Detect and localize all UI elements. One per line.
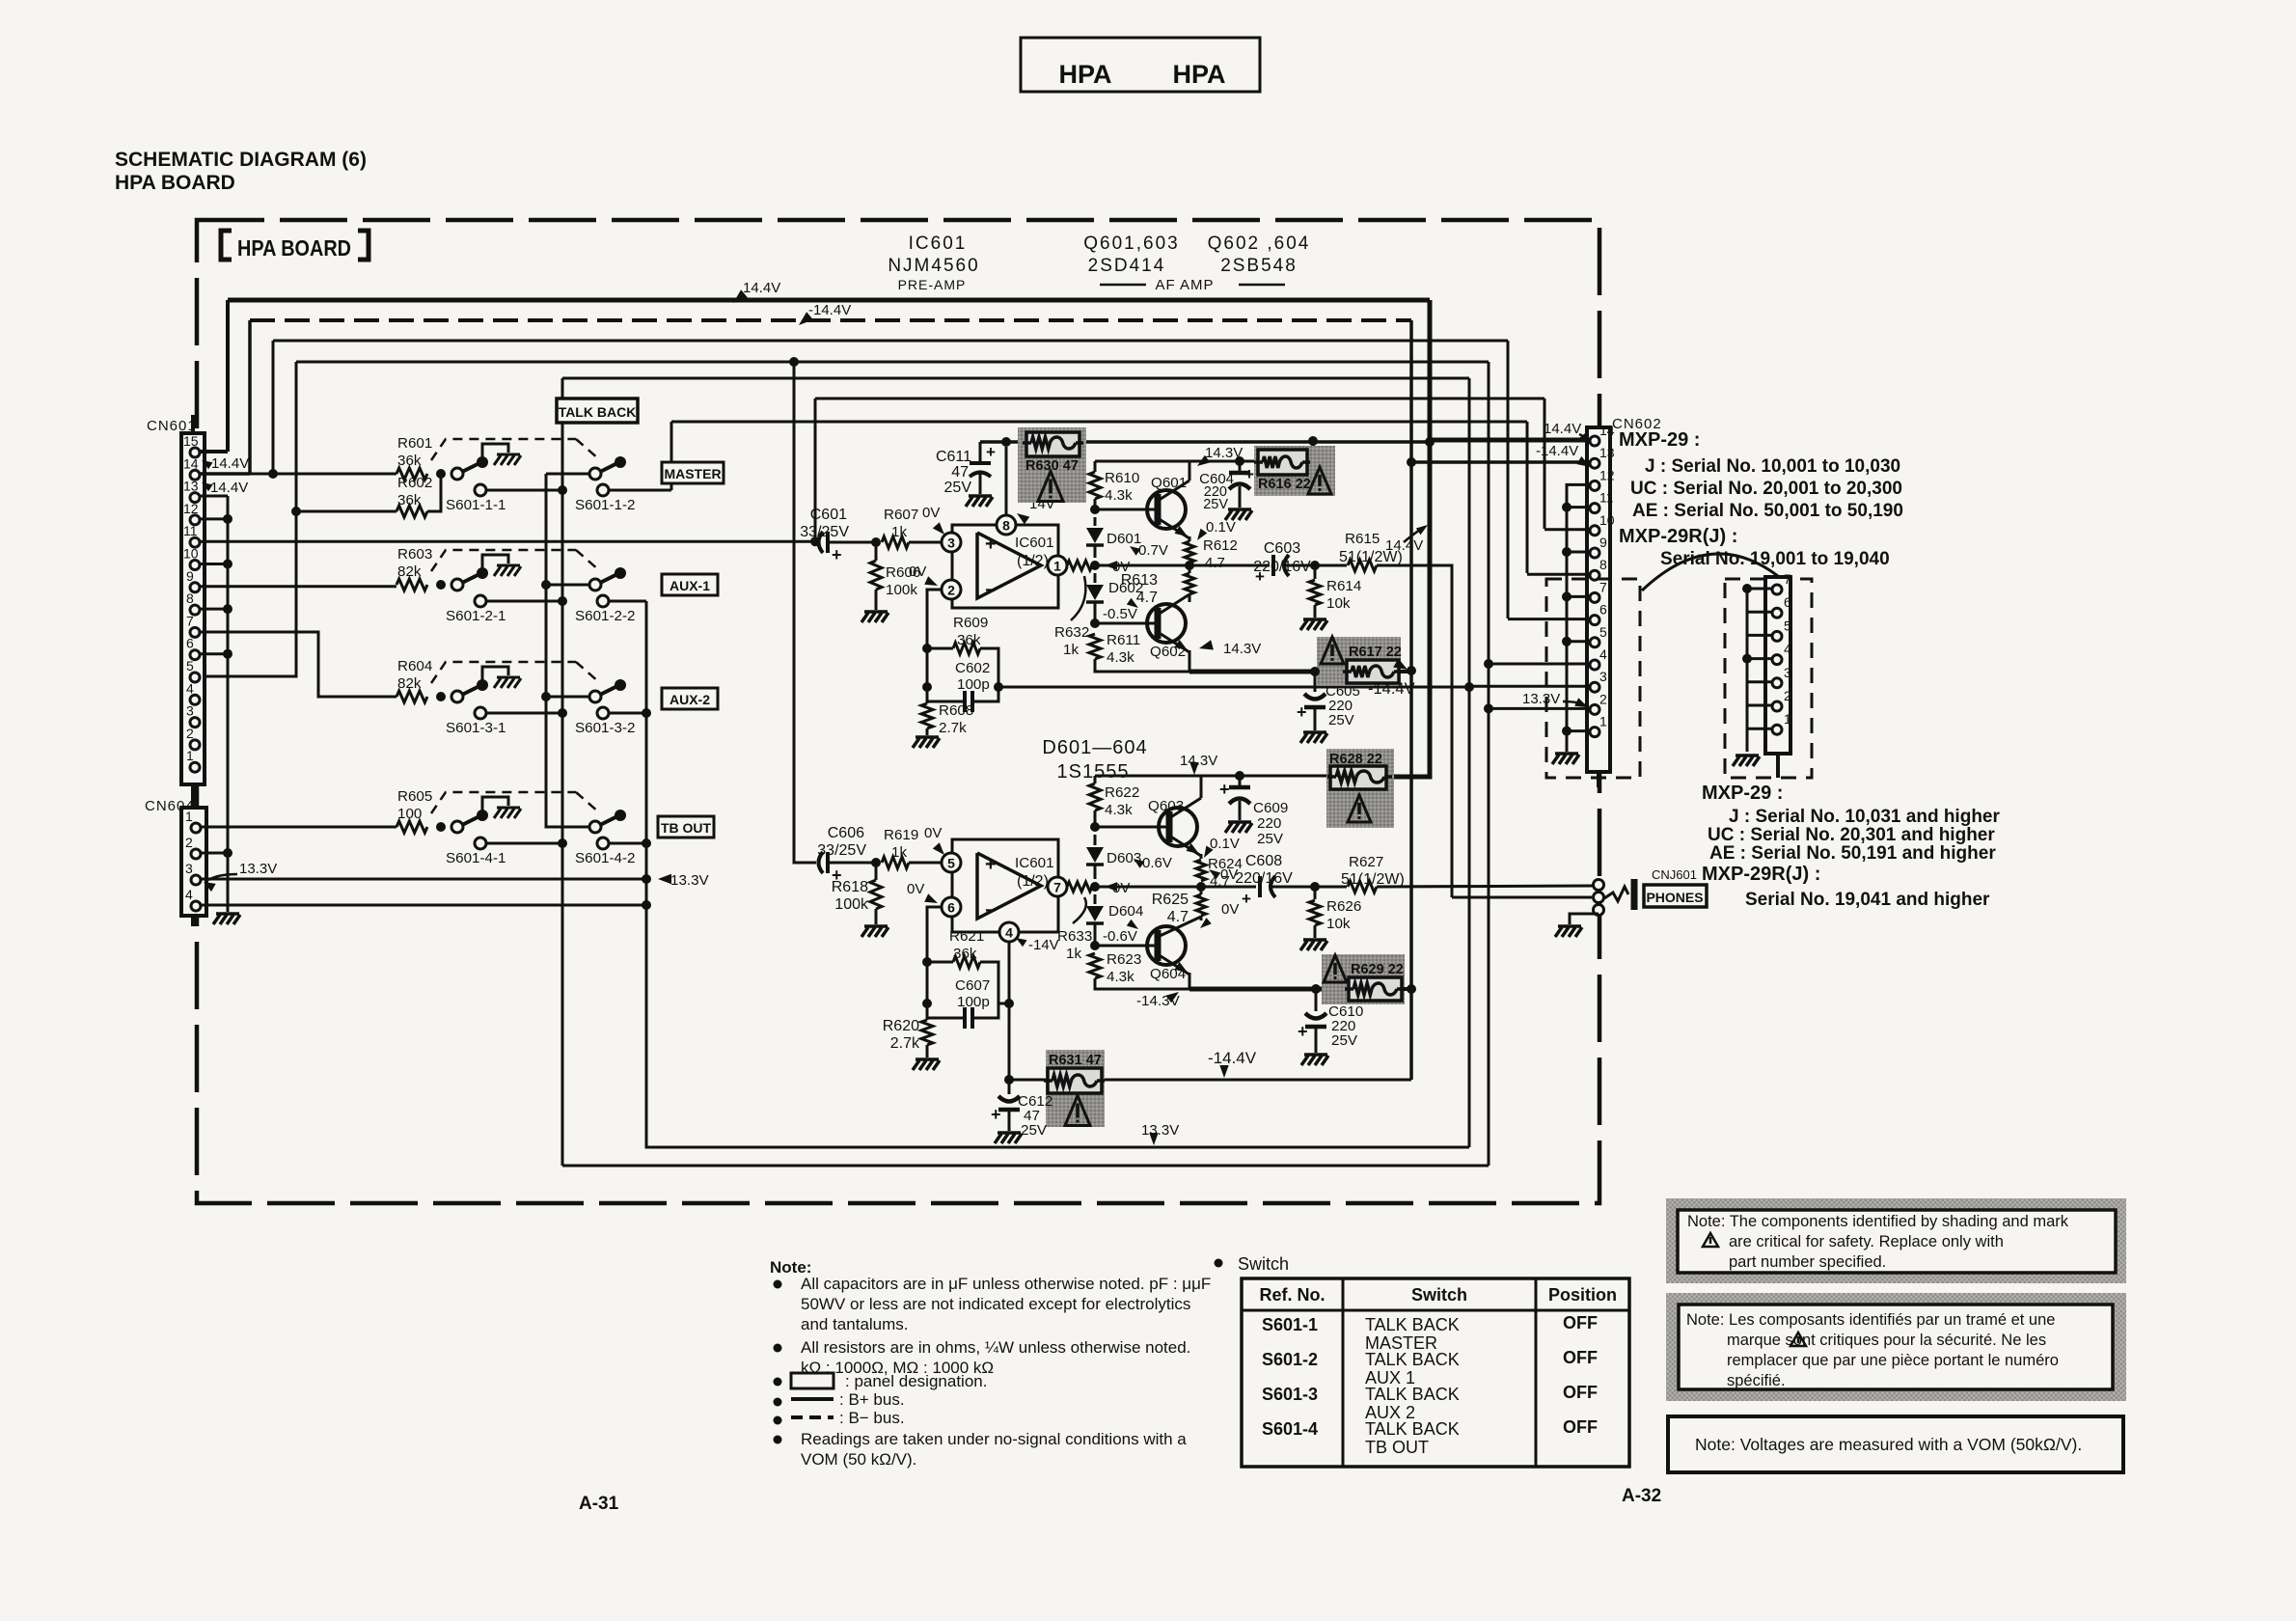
wire R607 to pin3: [909, 541, 942, 544]
detached connector tail: [1776, 754, 1780, 778]
wire Q604 base: [1095, 945, 1158, 948]
wire CN601 pin14 to -14.4V bus: [200, 472, 250, 476]
resistor R623: [1089, 953, 1101, 978]
junction pin14 row / bus3: [268, 469, 278, 479]
ground jack: [1558, 924, 1581, 928]
svg-text:2: 2: [186, 726, 194, 741]
CN602 pin 14: [1590, 436, 1599, 446]
wire Q602 base: [1095, 622, 1158, 625]
svg-text:R623: R623: [1107, 951, 1141, 968]
capacitor C609: [1239, 776, 1242, 785]
svg-text:4: 4: [186, 680, 194, 696]
svg-text:AE : Serial No. 50,001 to 50,1: AE : Serial No. 50,001 to 50,190: [1632, 501, 1903, 521]
switch S601-3-2: [589, 691, 601, 702]
shaded fusible resistor R617: [1317, 637, 1401, 685]
ground R626: [1303, 938, 1326, 942]
wire -14.4V bus right leg: [1409, 320, 1413, 461]
panel label TALK BACK: [557, 398, 638, 423]
note bullet 1: [774, 1280, 782, 1289]
svg-text:14.3V: 14.3V: [1223, 641, 1261, 657]
wire R629 to -14.4V bus: [1402, 987, 1411, 991]
resistor R602: [296, 510, 396, 513]
wire -14.4V bus vertical lower: [1409, 461, 1413, 1080]
note bullet 5: [774, 1416, 782, 1425]
svg-text:R605: R605: [397, 788, 432, 805]
svg-text:4.3k: 4.3k: [1105, 487, 1133, 504]
diode D602: [1094, 573, 1097, 583]
shaded fusible resistor R631: [1046, 1050, 1105, 1127]
wire CN604 pin2 to ground bus: [201, 852, 228, 855]
svg-text:0.1V: 0.1V: [1210, 836, 1240, 852]
svg-text:4: 4: [1599, 646, 1607, 662]
wire bus 3 left leg: [272, 341, 275, 474]
svg-text:13.3V: 13.3V: [239, 861, 277, 877]
svg-text:C606: C606: [828, 825, 864, 841]
svg-text:TALK BACK: TALK BACK: [1365, 1315, 1460, 1334]
svg-text:OFF: OFF: [1563, 1348, 1598, 1367]
wire CN602 pin 7 ground: [1567, 595, 1590, 598]
ground R608: [916, 735, 939, 739]
svg-text:R633: R633: [1057, 928, 1092, 945]
arrow -14.4V top: [799, 312, 813, 325]
svg-text:R607: R607: [884, 507, 918, 523]
wire CN601 pin 8 to ground bus: [200, 608, 228, 611]
wire CN602 pin 11 ground: [1567, 506, 1590, 508]
junction CN602 gbus 9: [1562, 547, 1572, 557]
ground C610: [1304, 1053, 1327, 1057]
junction Q601 base node: [1090, 505, 1100, 514]
IC601 pin 7 (output): [1048, 877, 1067, 896]
svg-text:9: 9: [186, 568, 194, 584]
svg-text:S601-3-1: S601-3-1: [446, 720, 506, 736]
svg-text:220: 220: [1257, 815, 1281, 832]
wire CN602 pin3 to fb line: [1469, 685, 1590, 688]
svg-text:Q601,603: Q601,603: [1083, 234, 1179, 254]
svg-text:7: 7: [1599, 579, 1607, 594]
wire R619 to pin5: [909, 862, 942, 865]
svg-text:4.3k: 4.3k: [1107, 969, 1134, 985]
switch table col line 2: [1535, 1278, 1538, 1467]
panel label TB OUT: [658, 816, 714, 838]
junction fb R621: [922, 957, 932, 967]
junction fb R609: [922, 644, 932, 653]
label 0V ch2 out: [1105, 882, 1117, 891]
svg-text:+: +: [832, 545, 842, 564]
svg-text:part number specified.: part number specified.: [1729, 1253, 1886, 1271]
panel label PHONES: [1644, 885, 1707, 907]
svg-text:NJM4560: NJM4560: [888, 256, 979, 276]
pointer R633: [1073, 897, 1086, 923]
svg-text:and tantalums.: and tantalums.: [801, 1315, 909, 1333]
svg-text:14: 14: [183, 455, 199, 471]
svg-text:AF AMP: AF AMP: [1155, 277, 1214, 293]
CN602 pin 2: [1590, 704, 1599, 714]
wire CN602 pin6 to bus3: [1508, 618, 1590, 620]
svg-text:14.3V: 14.3V: [1180, 753, 1217, 769]
wire Q603 base: [1095, 826, 1169, 829]
svg-text:Q601: Q601: [1151, 475, 1187, 491]
svg-text:R612: R612: [1203, 537, 1238, 554]
svg-text:R614: R614: [1326, 578, 1361, 594]
resistor R619: [882, 857, 909, 868]
svg-text:1: 1: [1784, 711, 1791, 727]
svg-text:R611: R611: [1107, 632, 1140, 648]
detached connector body: [1765, 577, 1790, 754]
svg-text:C603: C603: [1264, 540, 1300, 557]
svg-text:OFF: OFF: [1563, 1383, 1598, 1402]
connector CN604 tail bottom: [191, 916, 195, 926]
wire S601-1-2 contact to bus7: [609, 489, 671, 492]
wire ch2 out row: [1095, 886, 1201, 889]
svg-text:MXP-29R(J) :: MXP-29R(J) :: [1619, 526, 1737, 547]
wire 14.4V trunk to R628: [1392, 442, 1430, 777]
shaded fusible resistor R629: [1322, 954, 1405, 1004]
svg-text:S601-3: S601-3: [1262, 1385, 1318, 1404]
svg-text:HPA: HPA: [1058, 60, 1111, 89]
svg-text:25V: 25V: [1257, 831, 1284, 847]
svg-text:TALK BACK: TALK BACK: [559, 404, 637, 420]
note box FR shaded frame: [1666, 1293, 2126, 1401]
svg-text:UC : Serial No. 20,001 to 20,3: UC : Serial No. 20,001 to 20,300: [1630, 479, 1902, 499]
svg-text:1: 1: [1599, 714, 1607, 729]
pointer 13.3V CN602: [1563, 701, 1587, 706]
svg-text:Switch: Switch: [1238, 1254, 1289, 1274]
switch S601-3-1: [436, 692, 446, 701]
ground C609: [1228, 820, 1251, 824]
resistor R604: [396, 691, 427, 702]
svg-text:+: +: [1219, 780, 1230, 799]
svg-text:13: 13: [1599, 445, 1615, 460]
svg-text:Note: The components identifie: Note: The components identified by shadi…: [1687, 1213, 2069, 1230]
svg-text:8: 8: [1002, 518, 1010, 534]
note B- symbol: [791, 1415, 834, 1419]
wire S601-2-2 contact: [609, 600, 646, 603]
switch S601-4-1: [436, 822, 446, 832]
resistor R620: [926, 1018, 929, 1020]
note bullet 4: [774, 1398, 782, 1407]
resistor R633: [1067, 882, 1092, 892]
wire C607 left: [927, 962, 965, 1018]
wire 14.4V bus right leg: [1428, 300, 1433, 441]
wire S601-1-2 pivot: [546, 473, 589, 476]
svg-text:J : Serial No. 10,031 and high: J : Serial No. 10,031 and higher: [1729, 807, 2000, 827]
junction R615 in: [1310, 561, 1320, 570]
connector CN601 body: [181, 433, 205, 784]
svg-text:R604: R604: [397, 658, 432, 674]
capacitor C610: [1315, 989, 1318, 1011]
svg-text:1k: 1k: [1063, 642, 1079, 658]
svg-text:33/25V: 33/25V: [817, 842, 866, 859]
svg-text:4.3k: 4.3k: [1107, 649, 1134, 666]
shaded fusible resistor R628: [1326, 749, 1394, 828]
svg-text:IC601: IC601: [1015, 535, 1054, 551]
CN602 pin 3: [1590, 682, 1599, 692]
svg-text:25V: 25V: [1331, 1032, 1358, 1049]
svg-text:R619: R619: [884, 827, 918, 843]
ground C612: [998, 1131, 1021, 1135]
wire bus 6 left leg: [814, 398, 817, 542]
arrow 14.4V at CN601: [202, 460, 213, 469]
wire CN601 pin15 to 14.4V bus: [200, 450, 228, 453]
CN602 pin 5: [1590, 638, 1599, 647]
junction R602/bus4: [291, 507, 301, 516]
resistor R611: [1089, 634, 1101, 659]
svg-text:Q602: Q602: [1150, 644, 1186, 660]
svg-text:100p: 100p: [957, 676, 990, 693]
wire CN602 pin10 to bus6: [1544, 528, 1590, 531]
det pin 3 wire: [1747, 680, 1772, 683]
capacitor C604: [1239, 461, 1242, 471]
wire S601-4-2 contact: [609, 842, 646, 845]
wire R617 to -14.4V bus: [1399, 670, 1411, 673]
diode D604: [1094, 894, 1097, 904]
svg-text:UC : Serial No. 20,301 and hig: UC : Serial No. 20,301 and higher: [1708, 825, 1995, 845]
svg-text:R626: R626: [1326, 898, 1361, 915]
detached connector gbus: [1746, 589, 1749, 752]
IC601 pin 6: [942, 897, 961, 917]
capacitor C602: [963, 691, 967, 712]
switch bullet: [1215, 1259, 1223, 1268]
wire ch1 -14.4V line: [1189, 670, 1347, 674]
svg-text:0V: 0V: [907, 881, 924, 897]
rule right of AF AMP: [1239, 284, 1285, 287]
wire pin8 riser: [1005, 447, 1008, 515]
IC601 pin 1 (output): [1048, 556, 1067, 575]
svg-text:C611: C611: [936, 449, 971, 465]
resistor R621: [927, 961, 953, 964]
shaded fusible resistor R630: [1018, 427, 1086, 503]
svg-text:C608: C608: [1245, 853, 1282, 869]
svg-text:8: 8: [186, 591, 194, 606]
svg-text:TALK BACK: TALK BACK: [1365, 1350, 1460, 1369]
svg-text:25V: 25V: [1203, 497, 1228, 512]
resistor R608: [926, 701, 929, 703]
svg-text:+: +: [1255, 567, 1265, 586]
svg-text:+: +: [991, 1105, 1001, 1124]
CN602 pin 7: [1590, 592, 1599, 602]
switch S601-2-1: [436, 580, 446, 590]
svg-text:14.4V: 14.4V: [211, 455, 249, 472]
wire bus 6 right leg: [1544, 398, 1546, 529]
resistor R601: [396, 468, 427, 480]
svg-text:1: 1: [1053, 559, 1061, 574]
svg-text:HPA: HPA: [1172, 60, 1225, 89]
svg-text:1S1555: 1S1555: [1057, 761, 1130, 783]
junction fb/bus5 right leg: [1464, 682, 1474, 692]
IC601 pin 8: [997, 515, 1016, 535]
svg-text:−: −: [985, 580, 997, 601]
svg-text:1k: 1k: [1066, 946, 1081, 962]
svg-text:Q604: Q604: [1150, 966, 1186, 982]
wire CN604 pin1 to R605: [201, 826, 396, 829]
svg-text:(1/2): (1/2): [1017, 553, 1049, 569]
junction CN602 gbus 7: [1562, 591, 1572, 601]
svg-text:D604: D604: [1108, 903, 1143, 920]
svg-text:-14.4V: -14.4V: [1208, 1049, 1257, 1067]
svg-text:0.1V: 0.1V: [1206, 519, 1236, 536]
resistor R607: [882, 536, 909, 548]
IC601 pin 5: [942, 853, 961, 872]
note bullet 3: [774, 1378, 782, 1387]
junction ch2 feed on L4: [789, 357, 799, 367]
capacitor C612: [1008, 1080, 1011, 1094]
svg-text:11: 11: [1599, 490, 1614, 506]
svg-text:D601—604: D601—604: [1042, 737, 1147, 758]
svg-text:2.7k: 2.7k: [890, 1035, 920, 1052]
junction ch1 input / bus6 leg: [810, 536, 820, 546]
capacitor C605: [1314, 672, 1317, 692]
svg-text:2: 2: [185, 835, 193, 850]
CN602 pin 9: [1590, 548, 1599, 558]
junction fb line: [994, 682, 1003, 692]
resistor R626: [1314, 887, 1317, 899]
svg-text:R620: R620: [883, 1018, 919, 1034]
svg-text:R627: R627: [1349, 854, 1383, 870]
capacitor C607: [963, 1007, 967, 1029]
wire C606 to R619: [828, 862, 879, 865]
junction pivot g2: [541, 580, 551, 590]
svg-text:0.6V: 0.6V: [1142, 855, 1172, 871]
note box VOM frame: [1668, 1416, 2123, 1472]
junction Q602 base node: [1090, 618, 1100, 628]
switch S601-2-2: [589, 579, 601, 591]
svg-text:33/25V: 33/25V: [800, 524, 849, 540]
svg-text:0V: 0V: [922, 505, 940, 521]
svg-text:AE : Serial No. 50,191 and hig: AE : Serial No. 50,191 and higher: [1709, 843, 1996, 864]
wire pivot stub g2: [546, 584, 589, 587]
capacitor C603: [1189, 564, 1270, 567]
connector CN604 body: [181, 808, 206, 916]
svg-text:Note: Les composants identifié: Note: Les composants identifiés par un t…: [1686, 1311, 2055, 1329]
wire C607 right: [972, 962, 998, 1018]
svg-text:Ref. No.: Ref. No.: [1259, 1285, 1325, 1305]
note bullet 6: [774, 1436, 782, 1444]
wire C601 to R607: [828, 541, 879, 544]
svg-text:D601: D601: [1107, 531, 1141, 547]
junction fb C607: [922, 999, 932, 1008]
svg-text:10k: 10k: [1326, 595, 1351, 612]
svg-text:Switch: Switch: [1411, 1285, 1467, 1305]
wire bus 3 right leg: [1507, 341, 1510, 618]
switch S601-1-2: [589, 468, 601, 480]
detached connector pin 2: [1772, 701, 1782, 711]
wire CN601 pin7 elbow to R604: [200, 632, 396, 697]
svg-text:HPA BOARD: HPA BOARD: [115, 172, 235, 194]
note bullet 2: [774, 1344, 782, 1353]
svg-text:10: 10: [183, 546, 199, 562]
junction fb pin4 col: [1004, 999, 1014, 1008]
CN602 pin 10: [1590, 526, 1599, 536]
resistor R606: [875, 542, 878, 561]
svg-text:3: 3: [1784, 665, 1791, 680]
svg-text:3: 3: [947, 536, 955, 551]
svg-text:: B− bus.: : B− bus.: [839, 1409, 905, 1427]
dashed box CN602 lower: [1546, 579, 1640, 778]
svg-text:220/16V: 220/16V: [1235, 870, 1293, 887]
wire S601-3-2 contact: [609, 712, 646, 715]
wire CN601 pin9 to R603: [200, 585, 396, 588]
junction ground bus CN604 pin2: [223, 848, 232, 858]
ground CN602 bus: [1555, 752, 1578, 756]
svg-text:TB OUT: TB OUT: [1365, 1438, 1429, 1457]
svg-text:CNJ601: CNJ601: [1652, 867, 1697, 882]
wire R628 to ch2 rail: [1327, 775, 1332, 778]
connector CN601 tail top: [191, 415, 195, 433]
capacitor C601: [819, 532, 824, 553]
jack plug symbol: [1604, 887, 1628, 901]
IC601 pin 3: [942, 533, 961, 552]
detached connector pin 4: [1772, 655, 1782, 665]
wire R616 riser: [1307, 441, 1313, 461]
wire CN604 pin3 13.3V line: [201, 878, 646, 881]
wire CN602 pin2 13.3V: [1489, 707, 1590, 710]
svg-text:All capacitors are in μF u: All capacitors are in μF unless otherwis…: [801, 1275, 1211, 1293]
svg-text:: B+ bus.: : B+ bus.: [839, 1390, 905, 1409]
wire fb to CN602 pin3 row: [998, 686, 1469, 689]
CN602 pin 4: [1590, 660, 1599, 670]
junction C605: [1310, 667, 1320, 676]
svg-text:2SD414: 2SD414: [1088, 256, 1166, 276]
svg-text:4: 4: [1005, 925, 1013, 941]
junction R627 in: [1310, 882, 1320, 892]
wire ch2 negative supply rail: [1009, 1079, 1411, 1082]
svg-text:4.7: 4.7: [1205, 555, 1225, 571]
svg-text:0V: 0V: [1221, 901, 1239, 918]
ground C604: [1228, 508, 1251, 511]
svg-text:14.4V: 14.4V: [1385, 537, 1423, 554]
svg-text:spécifié.: spécifié.: [1727, 1372, 1786, 1389]
svg-text:Q603: Q603: [1148, 798, 1184, 814]
CN602 pin 13: [1590, 458, 1599, 468]
wire 14.4V B+ bus top: [228, 298, 1430, 303]
svg-text:MASTER: MASTER: [664, 466, 721, 481]
junction ch2 out node: [1090, 882, 1100, 892]
wire ch1 out row: [1095, 564, 1189, 567]
wire pin6 to fb node: [927, 907, 942, 962]
junction ch2 node: [1196, 882, 1206, 892]
svg-text:R608: R608: [939, 702, 973, 719]
resistor R612: [1185, 541, 1194, 563]
junction CN602 gbus 11: [1562, 503, 1572, 512]
svg-text:4.3k: 4.3k: [1105, 802, 1133, 818]
wire bus 5 right leg: [1468, 378, 1471, 1147]
op-amp ch1 triangle: [977, 533, 1041, 598]
page header tab box: [1021, 38, 1260, 92]
svg-text:5: 5: [186, 658, 194, 673]
wire CN602 pin12 ground bus: [1567, 484, 1590, 752]
svg-text:50WV or less are not indi: 50WV or less are not indicated except fo…: [801, 1295, 1190, 1313]
wire fb ch2 to pin4 col: [998, 1003, 1009, 1005]
arc to detached connector: [1642, 554, 1790, 591]
wire C602 left: [927, 648, 965, 701]
wire bus 5 left leg (switch bus): [561, 378, 564, 1166]
svg-text:-14.4V: -14.4V: [1368, 680, 1415, 698]
wire bus line 5 top: [562, 377, 1469, 380]
junction R618 top: [871, 858, 881, 867]
svg-text:MXP-29 :: MXP-29 :: [1619, 429, 1700, 451]
wire Q601 base: [1095, 508, 1156, 511]
svg-text:HPA BOARD: HPA BOARD: [237, 235, 351, 261]
wire ch2 input feed: [794, 362, 816, 863]
wire ch1 14.3V rail: [1095, 460, 1258, 463]
wire CN602 pin4 to bus4: [1489, 663, 1590, 666]
svg-text:5: 5: [947, 856, 955, 871]
junction ch1 out node: [1090, 561, 1100, 570]
capacitor C606: [819, 852, 824, 873]
svg-text:S601-4: S601-4: [1262, 1419, 1318, 1439]
resistor R618: [875, 863, 878, 880]
svg-text:S601-3-2: S601-3-2: [575, 720, 635, 736]
